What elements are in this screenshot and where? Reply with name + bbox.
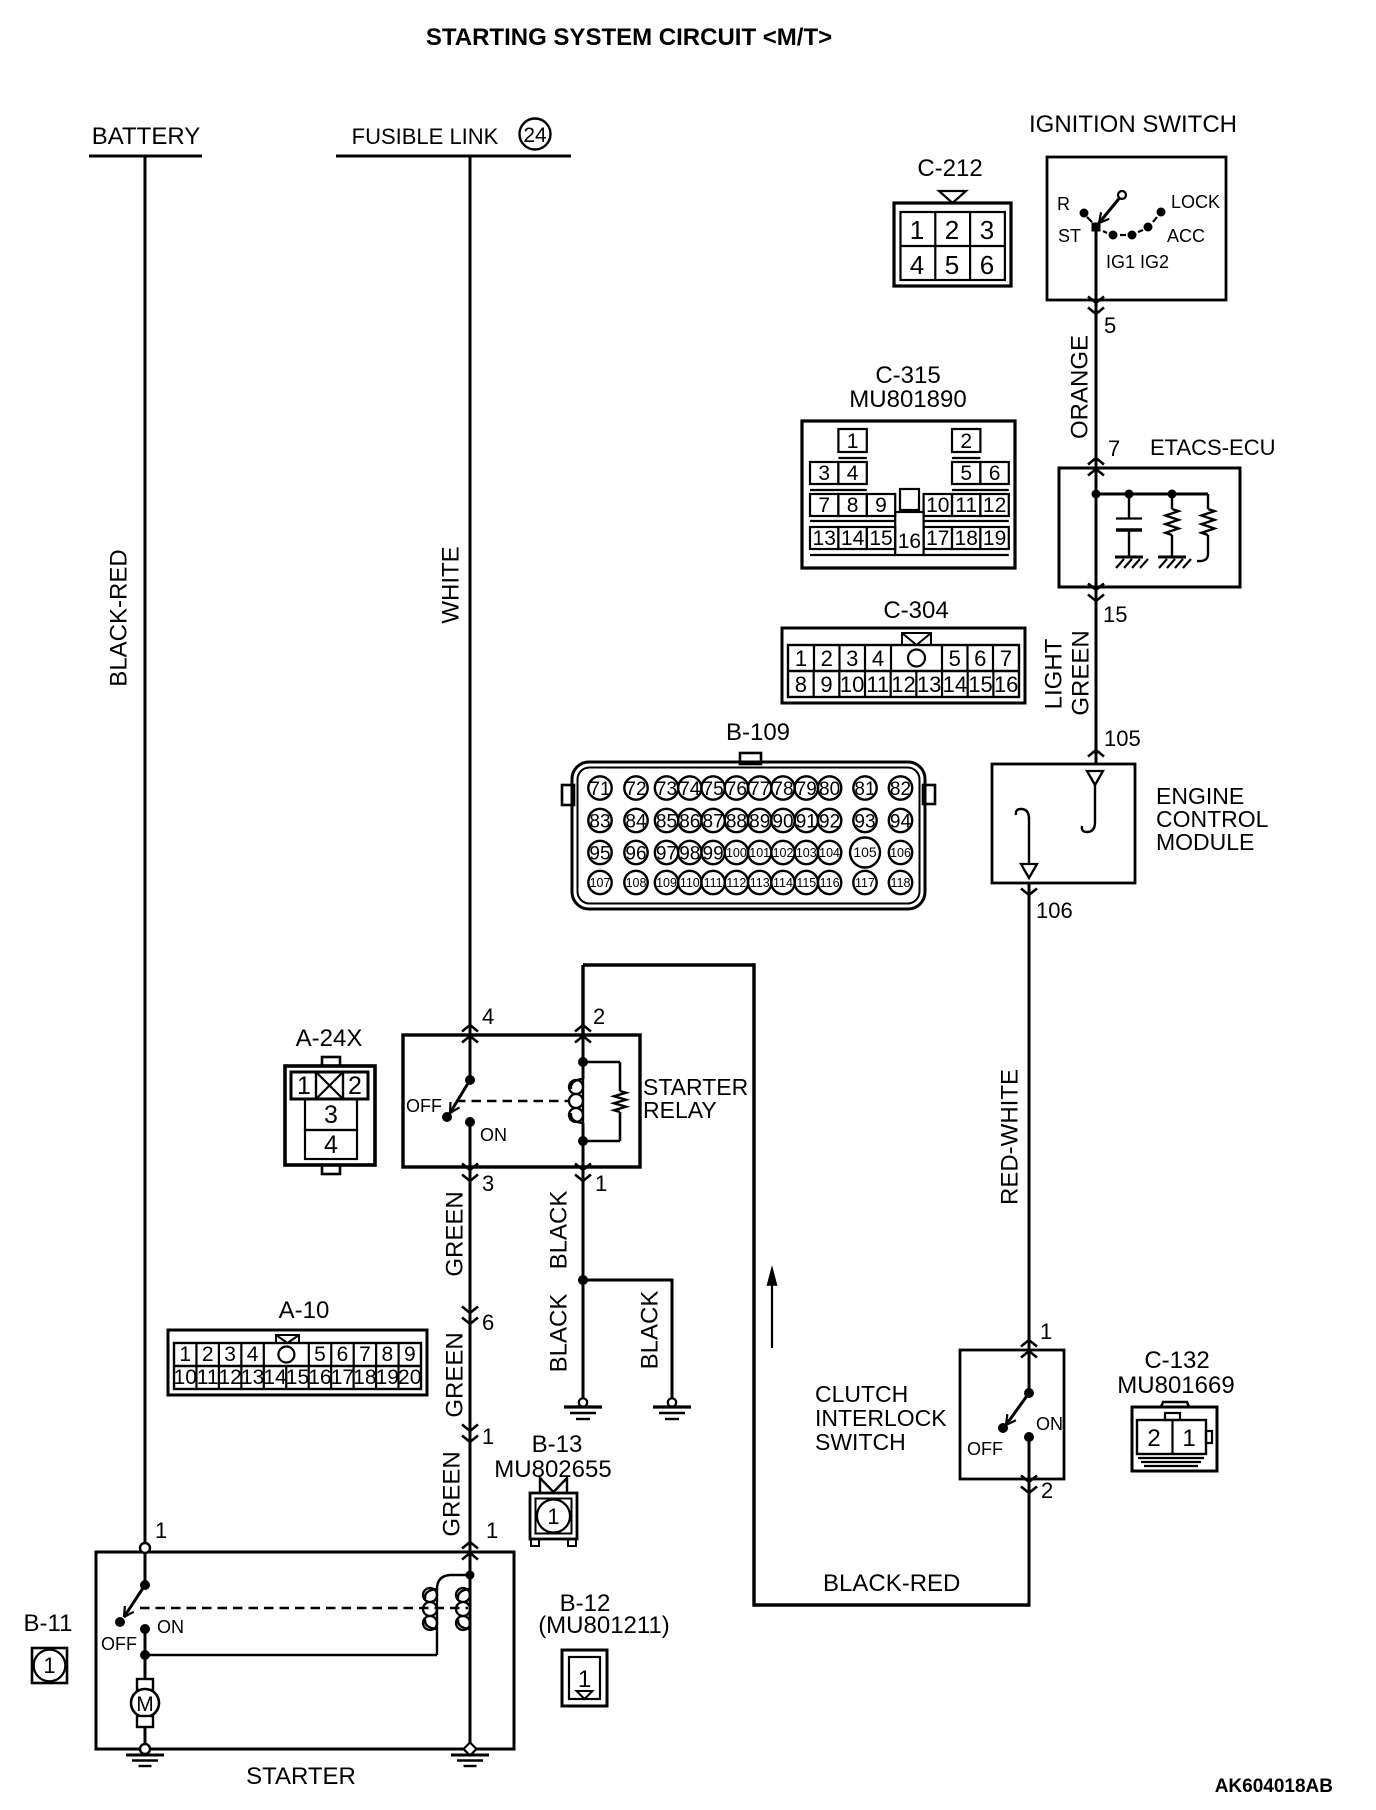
connector B-109: [562, 753, 935, 909]
svg-text:ORANGE: ORANGE: [1067, 335, 1094, 439]
connector crossing ETACS pin 7: [1088, 458, 1104, 465]
svg-text:3: 3: [482, 1171, 494, 1196]
svg-text:6: 6: [989, 462, 1001, 485]
relay coil parallel resistor: [583, 1062, 626, 1141]
wire relay pin 1 to ground (BLACK): [582, 1167, 585, 1398]
svg-text:16: 16: [994, 672, 1018, 697]
svg-text:84: 84: [625, 812, 647, 833]
ground (ETACS capacitor): [1115, 556, 1143, 559]
svg-text:18: 18: [353, 1366, 376, 1389]
svg-text:2: 2: [821, 646, 833, 671]
svg-text:RELAY: RELAY: [643, 1097, 717, 1123]
svg-text:2: 2: [348, 1072, 362, 1100]
connector B-12: [562, 1650, 607, 1706]
connector crossing ECM pin 105: [1088, 750, 1104, 757]
svg-text:85: 85: [656, 812, 677, 833]
svg-text:1: 1: [910, 215, 924, 245]
wire loop top horizontal: [583, 963, 754, 966]
svg-text:OFF: OFF: [406, 1096, 442, 1116]
svg-text:MU801890: MU801890: [849, 386, 966, 413]
ground (starter motor): [126, 1754, 164, 1757]
svg-text:10: 10: [840, 672, 864, 697]
svg-text:CLUTCH: CLUTCH: [815, 1381, 908, 1407]
svg-text:MU802655: MU802655: [494, 1456, 611, 1483]
connector C-304: [782, 628, 1025, 703]
svg-text:4: 4: [482, 1004, 494, 1029]
connector crossing clutch switch pin 2: [1021, 1476, 1037, 1483]
connector B-13: [530, 1478, 577, 1546]
svg-text:17: 17: [926, 527, 949, 550]
svg-text:1: 1: [578, 1666, 591, 1693]
starter motor M: [131, 1679, 159, 1749]
svg-text:117: 117: [855, 876, 875, 890]
svg-text:92: 92: [819, 812, 840, 833]
svg-text:90: 90: [772, 812, 793, 833]
resistor in ETACS (left): [1166, 494, 1179, 557]
svg-text:2: 2: [960, 430, 972, 453]
svg-text:88: 88: [726, 812, 747, 833]
wire through ETACS: [1095, 468, 1098, 587]
C-315 cells 13-19: [810, 527, 838, 549]
svg-text:3: 3: [324, 1101, 338, 1129]
wire relay pin 3 to starter (GREEN): [469, 1167, 472, 1552]
svg-text:106: 106: [1036, 898, 1073, 923]
svg-text:96: 96: [625, 844, 646, 865]
svg-text:86: 86: [679, 812, 700, 833]
svg-text:1: 1: [795, 646, 807, 671]
ground (right black wire): [668, 1398, 676, 1406]
svg-text:5: 5: [314, 1343, 326, 1366]
starter hold-in coil: [456, 1552, 475, 1749]
connector crossing relay pin 3: [462, 1164, 478, 1171]
connector crossing ETACS pin 15: [1088, 584, 1104, 591]
ECM pin 106 terminal: [1016, 809, 1037, 878]
svg-text:114: 114: [773, 876, 793, 890]
svg-text:73: 73: [656, 779, 677, 800]
fusible link number 24: [520, 119, 551, 150]
connector C-315: [802, 421, 1015, 568]
svg-text:9: 9: [820, 672, 832, 697]
connector crossing clutch switch pin 1: [1021, 1340, 1037, 1347]
svg-text:6: 6: [482, 1310, 494, 1335]
svg-text:GREEN: GREEN: [439, 1451, 466, 1536]
svg-text:71: 71: [589, 779, 610, 800]
starter relay box: [403, 1035, 640, 1167]
svg-text:104: 104: [819, 846, 840, 860]
svg-text:7: 7: [1108, 436, 1120, 461]
svg-text:1: 1: [179, 1343, 191, 1366]
svg-text:BLACK-RED: BLACK-RED: [823, 1570, 960, 1597]
svg-text:13: 13: [241, 1366, 264, 1389]
svg-text:A-24X: A-24X: [296, 1025, 363, 1052]
svg-text:ON: ON: [1036, 1414, 1063, 1434]
svg-text:14: 14: [943, 672, 967, 697]
svg-text:14: 14: [263, 1366, 287, 1389]
connector C-212: [894, 155, 1011, 286]
junction node black wires: [578, 1275, 588, 1285]
svg-text:ON: ON: [157, 1617, 184, 1637]
svg-text:103: 103: [796, 846, 817, 860]
svg-text:115: 115: [796, 876, 816, 890]
wire loop bottom horizontal: [754, 1603, 1029, 1606]
svg-text:11: 11: [866, 672, 889, 697]
svg-text:7: 7: [359, 1343, 371, 1366]
ECM pin 105 terminal: [1082, 771, 1103, 832]
svg-text:C-212: C-212: [917, 155, 982, 182]
svg-text:8: 8: [795, 672, 807, 697]
svg-text:STARTING SYSTEM CIRCUIT <M/T>: STARTING SYSTEM CIRCUIT <M/T>: [426, 24, 832, 51]
svg-text:17: 17: [331, 1366, 354, 1389]
current direction arrow: [771, 1285, 773, 1348]
svg-text:FUSIBLE LINK: FUSIBLE LINK: [352, 124, 499, 149]
svg-text:93: 93: [854, 812, 875, 833]
svg-text:B-11: B-11: [24, 1610, 73, 1637]
relay dashed actuation link: [456, 1100, 570, 1103]
svg-text:5: 5: [949, 646, 961, 671]
svg-text:95: 95: [589, 844, 610, 865]
ground (left black wire): [579, 1398, 587, 1406]
svg-text:2: 2: [1041, 1478, 1053, 1503]
connector crossing ECM pin 106: [1021, 889, 1037, 896]
svg-text:GREEN: GREEN: [1068, 630, 1095, 715]
connector crossing B-13 pin 1: [462, 1425, 478, 1432]
svg-text:M: M: [136, 1693, 154, 1716]
ground (starter coil): [451, 1754, 489, 1757]
svg-text:BLACK: BLACK: [546, 1294, 573, 1373]
wire battery to starter (BLACK-RED): [144, 156, 147, 1545]
wire fusible link to starter relay (WHITE): [469, 156, 472, 1035]
svg-text:ON: ON: [480, 1125, 507, 1145]
svg-text:24: 24: [523, 124, 547, 147]
svg-text:12: 12: [218, 1366, 241, 1389]
starter motor ground terminal: [140, 1744, 150, 1754]
wire branch to second ground (BLACK): [583, 1280, 672, 1398]
connector C-132: [1132, 1402, 1217, 1471]
svg-text:13: 13: [813, 527, 836, 550]
svg-text:BLACK-RED: BLACK-RED: [106, 549, 133, 686]
svg-text:102: 102: [773, 846, 794, 860]
svg-text:19: 19: [376, 1366, 399, 1389]
svg-text:111: 111: [704, 876, 723, 890]
svg-text:A-10: A-10: [279, 1297, 330, 1324]
svg-text:87: 87: [703, 812, 724, 833]
connector crossing ignition pin 5: [1088, 297, 1104, 304]
svg-text:C-132: C-132: [1144, 1347, 1209, 1374]
relay switch: [406, 1035, 507, 1167]
svg-text:INTERLOCK: INTERLOCK: [815, 1405, 947, 1431]
wire ignition ST to box exit: [1095, 227, 1098, 300]
ETACS internal branch node: [1096, 493, 1208, 496]
wire coil to switch junction: [145, 1654, 437, 1657]
svg-text:4: 4: [847, 462, 859, 485]
svg-text:74: 74: [679, 779, 701, 800]
connector B-11: [32, 1648, 67, 1683]
svg-text:1: 1: [482, 1424, 494, 1449]
svg-text:2: 2: [202, 1343, 214, 1366]
svg-text:10: 10: [926, 494, 949, 517]
svg-text:4: 4: [872, 646, 884, 671]
clutch interlock switch box: [960, 1350, 1064, 1479]
svg-text:89: 89: [749, 812, 770, 833]
svg-text:1: 1: [486, 1518, 498, 1543]
svg-text:1: 1: [847, 430, 859, 453]
svg-text:5: 5: [945, 250, 959, 280]
svg-text:BLACK: BLACK: [637, 1291, 664, 1370]
svg-text:B-13: B-13: [532, 1431, 583, 1458]
svg-text:106: 106: [890, 846, 911, 860]
svg-text:1: 1: [155, 1518, 167, 1543]
svg-text:100: 100: [726, 846, 747, 860]
C-315 cells 7-12: [810, 494, 838, 516]
svg-text:C-304: C-304: [883, 597, 948, 624]
svg-text:3: 3: [818, 462, 830, 485]
svg-text:2: 2: [593, 1004, 605, 1029]
svg-text:IGNITION SWITCH: IGNITION SWITCH: [1029, 111, 1237, 138]
svg-text:3: 3: [846, 646, 858, 671]
svg-text:75: 75: [703, 779, 724, 800]
svg-text:LOCK: LOCK: [1171, 192, 1220, 212]
svg-text:7: 7: [818, 494, 830, 517]
svg-text:77: 77: [749, 779, 770, 800]
C-315 cell 16: [900, 489, 919, 510]
svg-text:15: 15: [968, 672, 992, 697]
wire starter relay pin 2 riser: [581, 965, 584, 1035]
svg-text:9: 9: [404, 1343, 416, 1366]
connector crossing relay pin 4: [462, 1025, 478, 1032]
svg-text:1: 1: [595, 1171, 607, 1196]
svg-text:101: 101: [749, 846, 770, 860]
wire ignition to ETACS (ORANGE): [1095, 300, 1098, 468]
battery terminal circle (pin 1): [140, 1543, 150, 1553]
C-315 cells 3-6: [810, 462, 838, 484]
svg-text:R: R: [1057, 194, 1070, 214]
svg-text:5: 5: [1104, 313, 1116, 338]
relay coil: [569, 1035, 588, 1167]
starter pull-in coil: [423, 1575, 470, 1655]
svg-text:110: 110: [680, 876, 700, 890]
svg-text:2: 2: [1147, 1425, 1160, 1452]
svg-text:3: 3: [224, 1343, 236, 1366]
ignition switch contacts and arm: [1057, 191, 1220, 272]
battery supply bar: [89, 155, 202, 158]
connector A-10: [168, 1330, 427, 1395]
svg-text:79: 79: [796, 779, 817, 800]
svg-text:15: 15: [1103, 602, 1127, 627]
ignition switch box: [1047, 157, 1226, 300]
ETACS-ECU box: [1059, 468, 1240, 587]
svg-text:6: 6: [980, 250, 994, 280]
connector crossing A-10 pin 6: [462, 1307, 478, 1314]
svg-text:16: 16: [898, 530, 921, 553]
svg-text:AK604018AB: AK604018AB: [1215, 1776, 1333, 1797]
svg-text:105: 105: [853, 844, 877, 860]
svg-text:1: 1: [43, 1653, 55, 1678]
svg-text:WHITE: WHITE: [438, 546, 465, 623]
svg-text:1: 1: [1182, 1425, 1195, 1452]
svg-text:10: 10: [174, 1366, 197, 1389]
svg-text:GREEN: GREEN: [442, 1191, 469, 1276]
svg-text:19: 19: [983, 527, 1006, 550]
svg-text:11: 11: [197, 1366, 219, 1389]
svg-text:4: 4: [910, 250, 924, 280]
svg-text:6: 6: [337, 1343, 349, 1366]
svg-text:99: 99: [703, 844, 724, 865]
wire ECM to clutch interlock switch (RED-WHITE): [1028, 883, 1031, 1350]
svg-text:116: 116: [820, 876, 840, 890]
connector A-24X: [285, 1057, 375, 1174]
svg-text:82: 82: [890, 779, 911, 800]
engine control module box: [992, 764, 1135, 883]
connector crossing relay pin 2: [575, 1025, 591, 1032]
svg-text:109: 109: [656, 876, 677, 890]
starter box: [96, 1552, 514, 1749]
svg-text:C-315: C-315: [875, 362, 940, 389]
svg-text:15: 15: [869, 527, 892, 550]
svg-text:13: 13: [917, 672, 941, 697]
svg-text:LIGHT: LIGHT: [1041, 638, 1068, 709]
svg-text:14: 14: [841, 527, 865, 550]
svg-text:OFF: OFF: [101, 1634, 137, 1654]
svg-text:11: 11: [955, 494, 977, 517]
svg-text:9: 9: [875, 494, 887, 517]
starter switch: [101, 1552, 184, 1679]
svg-text:ACC: ACC: [1167, 226, 1205, 246]
svg-text:76: 76: [726, 779, 747, 800]
svg-text:OFF: OFF: [967, 1439, 1003, 1459]
C-315 cell 1: [838, 429, 866, 452]
svg-text:1: 1: [297, 1072, 311, 1100]
svg-text:ETACS-ECU: ETACS-ECU: [1150, 435, 1276, 460]
svg-text:112: 112: [726, 876, 746, 890]
svg-text:108: 108: [626, 876, 647, 890]
svg-text:91: 91: [796, 812, 817, 833]
svg-text:2: 2: [945, 215, 959, 245]
svg-text:1: 1: [1040, 1319, 1052, 1344]
starter coil ground terminal: [463, 1742, 476, 1755]
ground (ETACS resistor): [1158, 556, 1186, 559]
svg-text:1: 1: [547, 1504, 559, 1529]
svg-text:4: 4: [247, 1343, 259, 1366]
svg-text:98: 98: [679, 844, 700, 865]
svg-text:BLACK: BLACK: [546, 1191, 573, 1270]
svg-text:105: 105: [1104, 726, 1141, 751]
svg-text:18: 18: [955, 527, 978, 550]
svg-text:IG1 IG2: IG1 IG2: [1106, 252, 1169, 272]
svg-text:72: 72: [625, 779, 646, 800]
svg-text:B-109: B-109: [726, 719, 790, 746]
svg-text:MODULE: MODULE: [1156, 829, 1254, 855]
svg-text:94: 94: [890, 812, 912, 833]
connector crossing starter pin 1: [462, 1542, 478, 1549]
svg-text:GREEN: GREEN: [442, 1332, 469, 1417]
svg-text:16: 16: [308, 1366, 331, 1389]
svg-text:107: 107: [590, 876, 611, 890]
svg-text:6: 6: [974, 646, 986, 671]
svg-text:8: 8: [847, 494, 859, 517]
svg-text:SWITCH: SWITCH: [815, 1429, 906, 1455]
wire loop right vertical (BLACK-RED): [752, 963, 755, 1606]
svg-text:78: 78: [772, 779, 793, 800]
svg-text:RED-WHITE: RED-WHITE: [997, 1069, 1024, 1205]
clutch switch contacts: [967, 1350, 1063, 1479]
wire clutch switch to loop (BLACK-RED): [1028, 1479, 1031, 1607]
svg-text:12: 12: [983, 494, 1006, 517]
svg-text:113: 113: [750, 876, 770, 890]
svg-text:3: 3: [980, 215, 994, 245]
svg-text:8: 8: [382, 1343, 394, 1366]
connector crossing relay pin 1: [575, 1164, 591, 1171]
svg-text:5: 5: [960, 462, 972, 485]
svg-text:97: 97: [656, 844, 677, 865]
svg-text:118: 118: [891, 876, 911, 890]
svg-text:4: 4: [324, 1131, 338, 1159]
svg-text:15: 15: [286, 1366, 309, 1389]
C-315 cell 2: [952, 429, 980, 452]
capacitor in ETACS: [1116, 494, 1142, 557]
fusible link bar: [336, 155, 571, 158]
svg-text:STARTER: STARTER: [246, 1763, 356, 1790]
svg-text:20: 20: [398, 1366, 421, 1389]
svg-text:81: 81: [854, 779, 875, 800]
svg-text:83: 83: [589, 812, 610, 833]
svg-text:ST: ST: [1058, 226, 1081, 246]
svg-text:7: 7: [1000, 646, 1012, 671]
wire ETACS to ECM (LIGHT GREEN): [1095, 587, 1098, 764]
svg-text:80: 80: [819, 779, 840, 800]
starter dashed actuation link: [140, 1607, 468, 1610]
svg-text:BATTERY: BATTERY: [92, 123, 200, 150]
svg-text:(MU801211): (MU801211): [538, 1612, 670, 1639]
svg-text:MU801669: MU801669: [1117, 1372, 1234, 1399]
resistor in ETACS (right): [1197, 494, 1215, 561]
svg-text:12: 12: [891, 672, 915, 697]
